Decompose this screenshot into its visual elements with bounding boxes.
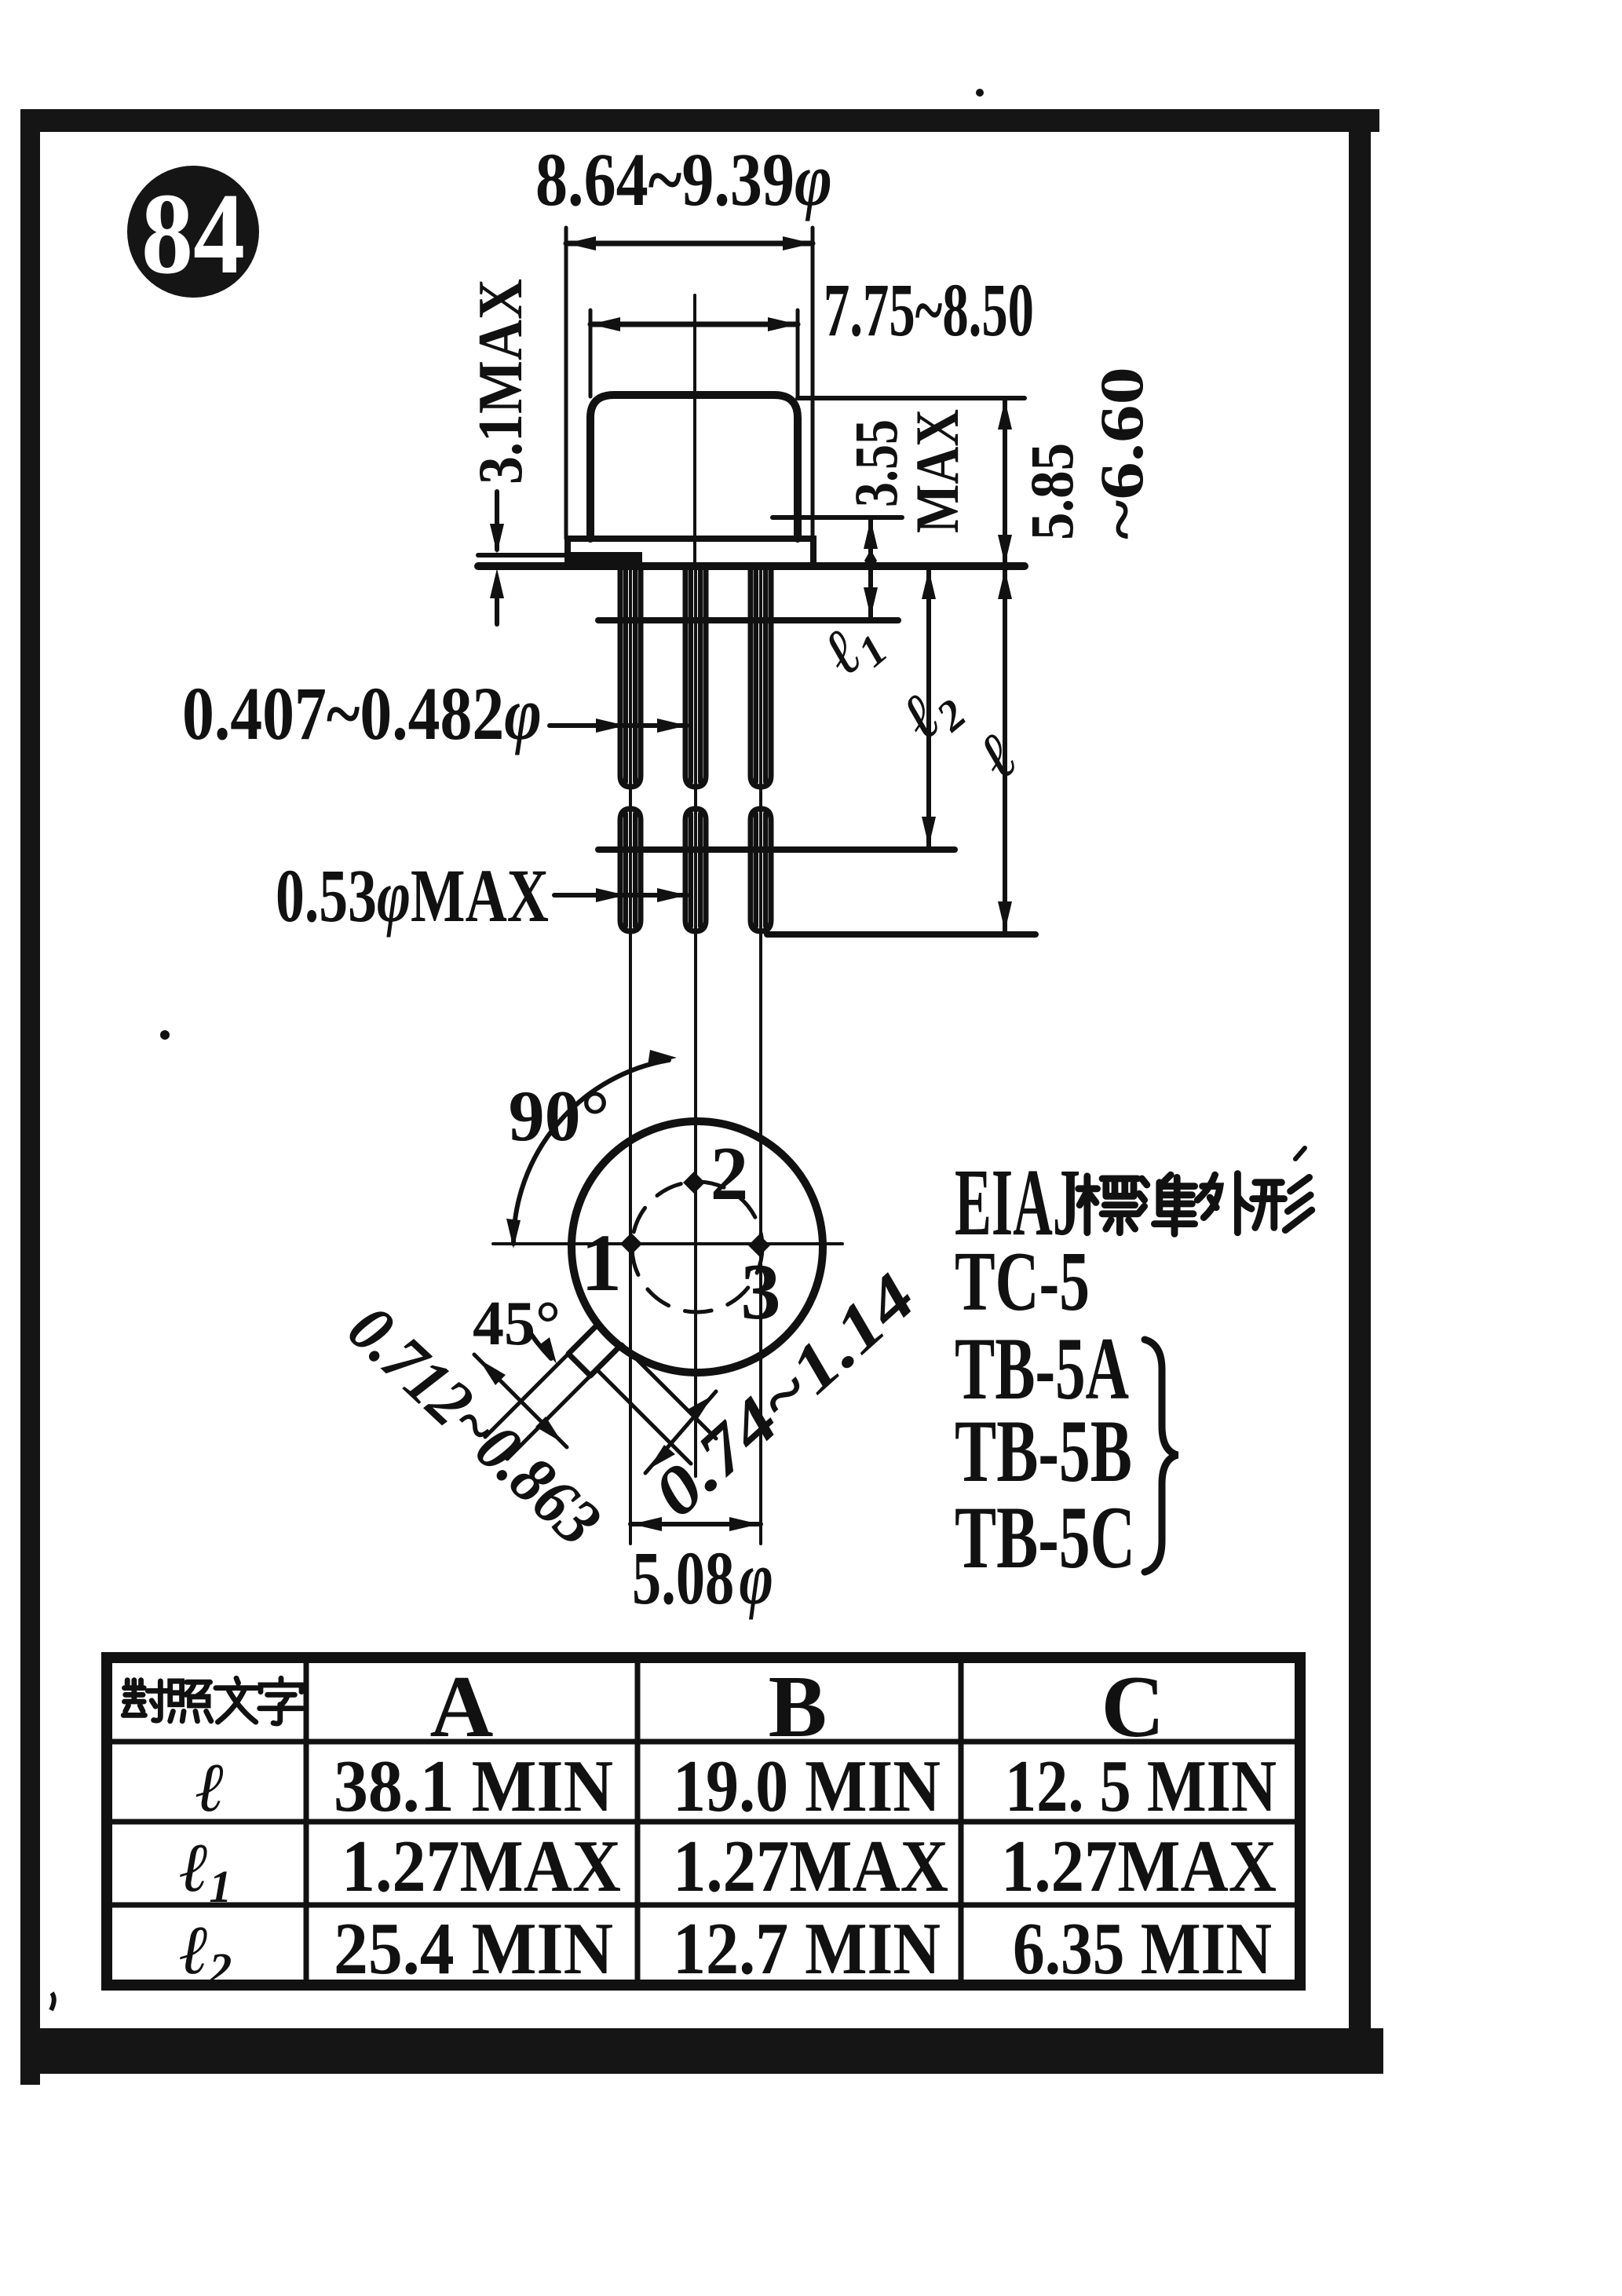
pin 3 dot — [748, 1234, 770, 1256]
stray ink speck top — [976, 89, 984, 97]
leader line for 0.53 MAX with two arrows — [554, 893, 687, 898]
45 degree arc with arrow — [524, 1324, 551, 1358]
tab side extension line 1 — [485, 1354, 568, 1437]
extension line left of cap dia — [589, 310, 593, 397]
svg-text:12. 5 MIN: 12. 5 MIN — [1005, 1746, 1277, 1827]
svg-text:TB-5C: TB-5C — [955, 1489, 1135, 1587]
svg-text:ℓ: ℓ — [195, 1750, 225, 1826]
can centerline — [693, 295, 696, 565]
svg-text:3: 3 — [741, 1248, 781, 1336]
tab end extension line 2 — [597, 1369, 691, 1464]
CJK 形 — [1253, 1177, 1312, 1230]
can top extension line to right — [798, 396, 1025, 400]
svg-text:C: C — [1101, 1658, 1165, 1756]
small tick mark above xing — [1295, 1148, 1305, 1159]
pin 1 dot — [620, 1233, 642, 1255]
lead inner shading lines — [623, 570, 628, 782]
CJK 外 — [1197, 1174, 1251, 1233]
svg-text:19.0 MIN: 19.0 MIN — [673, 1746, 941, 1827]
3.1MAX dim line lower segment with up arrow — [495, 581, 499, 624]
header CJK 照 — [170, 1681, 211, 1721]
index tab outline — [568, 1325, 619, 1376]
svg-text:6.35 MIN: 6.35 MIN — [1013, 1908, 1272, 1990]
svg-text:90°: 90° — [509, 1076, 610, 1156]
header CJK 文 — [216, 1678, 257, 1722]
svg-text:1: 1 — [581, 1218, 622, 1308]
lead 1 lower segment — [620, 809, 641, 931]
svg-text:~6.60: ~6.60 — [1087, 367, 1156, 539]
lead 2 upper segment — [685, 567, 706, 787]
svg-text:7.75~8.50: 7.75~8.50 — [824, 268, 1034, 352]
lead 3 upper segment — [751, 567, 771, 787]
l2 reference line — [598, 846, 955, 853]
extension line left of flange dia — [564, 228, 568, 539]
svg-text:1.27MAX: 1.27MAX — [1001, 1826, 1277, 1907]
svg-text:1.27MAX: 1.27MAX — [342, 1826, 621, 1907]
l2 dim vertical line with arrows — [926, 568, 931, 848]
svg-text:38.1 MIN: 38.1 MIN — [334, 1746, 613, 1827]
table outer border — [107, 1658, 1300, 1985]
svg-text:0.407~0.482φ: 0.407~0.482φ — [182, 671, 542, 755]
bottom view can circle — [572, 1121, 823, 1373]
svg-text:2: 2 — [711, 1132, 749, 1216]
junction dot on 3.55 dim line — [864, 550, 877, 572]
extension line right of cap dia — [796, 310, 800, 397]
svg-text:B: B — [769, 1658, 827, 1756]
svg-text:5.08φ: 5.08φ — [632, 1536, 773, 1620]
stray comma mark bottom left — [51, 1993, 54, 2010]
tab length dim line with arrows (0.74~1.14) — [645, 1391, 716, 1473]
svg-text:MAX: MAX — [903, 409, 971, 533]
stray ink speck left margin — [160, 1030, 170, 1040]
CJK 標 — [1079, 1176, 1138, 1233]
tab side extension line 2 — [507, 1376, 590, 1459]
table row separator 3 — [107, 1903, 1300, 1908]
svg-text:25.4 MIN: 25.4 MIN — [334, 1908, 613, 1990]
header CJK 字 — [260, 1678, 303, 1724]
flange rim extension line left — [478, 553, 595, 558]
lead 1 centerline (extends to bottom view) — [629, 567, 632, 1544]
3.1MAX dim line upper segment with down arrow — [495, 492, 499, 550]
l dim vertical line with arrows — [1003, 568, 1007, 933]
tab width dim line with arrows (0.712~0.863) — [474, 1355, 567, 1447]
5.85~6.60 dim vertical line with arrows — [1003, 398, 1007, 566]
table column separator 1 — [304, 1658, 309, 1985]
svg-text:A: A — [430, 1658, 494, 1756]
CJK 準 — [1138, 1175, 1195, 1234]
svg-text:3.1MAX: 3.1MAX — [466, 279, 535, 484]
pin circle dashed — [632, 1182, 762, 1312]
lead 2 centerline — [694, 567, 697, 1476]
svg-text:3.55: 3.55 — [842, 419, 910, 507]
cap inner ledge extension line (3.55 ref) — [773, 515, 902, 520]
lead 2 lower segment — [685, 809, 706, 931]
svg-text:8.64~9.39φ: 8.64~9.39φ — [535, 137, 832, 221]
l1 reference line — [598, 617, 898, 623]
svg-text:1.27MAX: 1.27MAX — [673, 1826, 948, 1907]
horizontal centerline — [493, 1242, 842, 1245]
pin 2 dot — [683, 1172, 705, 1194]
lead 3 lower segment — [751, 809, 771, 931]
svg-text:TB-5B: TB-5B — [955, 1402, 1132, 1501]
5.08 dim line with arrows — [630, 1522, 761, 1526]
flange rim smudge — [570, 552, 642, 565]
table row separator 1 — [107, 1739, 1300, 1745]
page number badge 84 — [127, 166, 259, 298]
90 degree arc with arrows — [513, 1060, 669, 1244]
page frame border — [20, 109, 1383, 2085]
dim line 7.75~8.50 with arrows — [590, 322, 798, 327]
lead 3 centerline — [759, 567, 762, 1544]
lead 1 upper segment — [620, 567, 641, 787]
l reference line — [767, 931, 1036, 938]
svg-text:12.7 MIN: 12.7 MIN — [673, 1908, 941, 1990]
extension line right of flange dia — [811, 228, 815, 539]
grouping brace — [1145, 1340, 1178, 1572]
table column separator 3 — [959, 1658, 964, 1985]
svg-text:84: 84 — [141, 170, 245, 298]
can flange — [568, 539, 813, 565]
header CJK 對 — [123, 1680, 169, 1720]
svg-text:0.53φMAX: 0.53φMAX — [276, 854, 549, 938]
dim line 8.64~9.39 with arrows — [566, 241, 813, 247]
svg-text:5.85: 5.85 — [1017, 443, 1086, 540]
seating plane line — [478, 562, 1025, 570]
table column separator 2 — [635, 1658, 641, 1985]
svg-text:45°: 45° — [473, 1289, 561, 1358]
table row separator 2 — [107, 1819, 1300, 1825]
leader line for 0.407~0.482 with two arrows — [550, 723, 687, 728]
3.55MAX / l1 dim vertical line with arrows — [868, 517, 873, 619]
tab end extension line 1 — [622, 1344, 716, 1439]
transistor can body outline — [590, 395, 798, 539]
svg-text:TC-5: TC-5 — [955, 1235, 1090, 1329]
